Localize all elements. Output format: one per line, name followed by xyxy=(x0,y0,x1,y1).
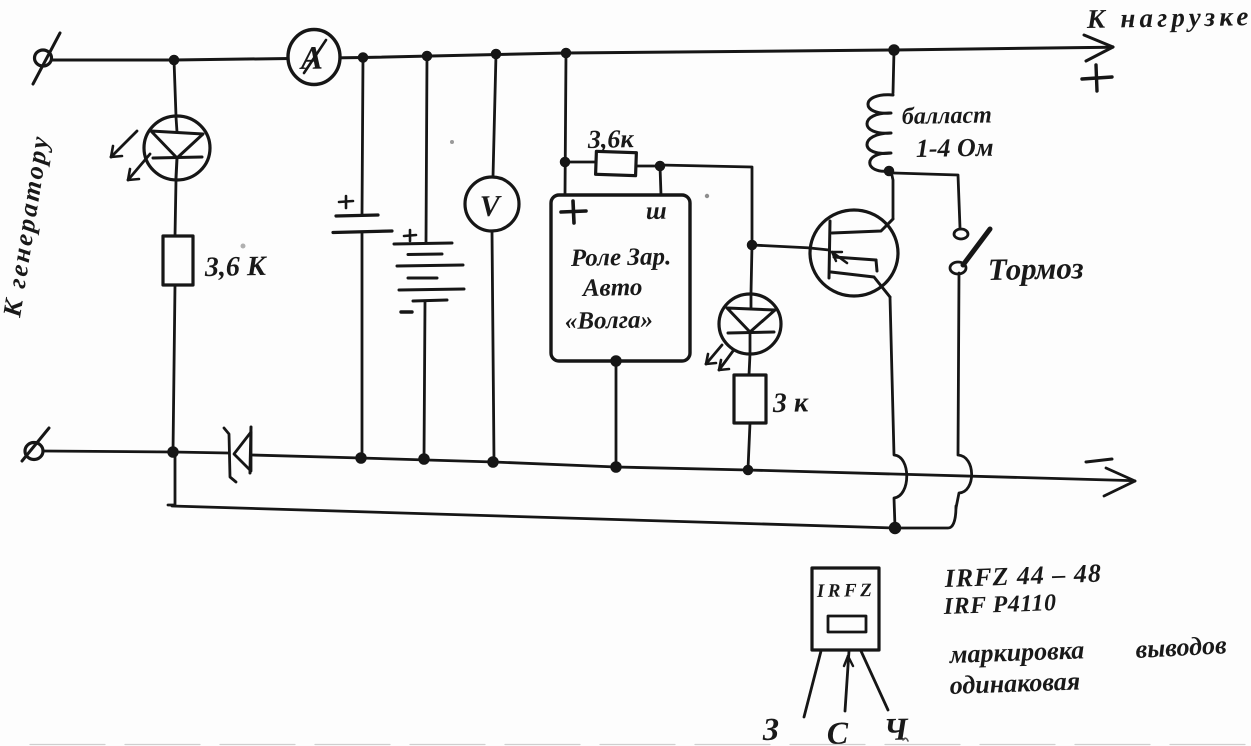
terminal bottom-left input xyxy=(22,428,49,461)
wire LED to resistor xyxy=(175,180,176,236)
label Ч leg xyxy=(883,711,909,746)
label балласт xyxy=(902,102,992,130)
label Авто xyxy=(581,274,643,302)
terminal top-left input xyxy=(33,33,60,84)
package legs xyxy=(804,651,888,717)
wire capacitor to bottom bus xyxy=(361,233,364,457)
transistor gate lead inside xyxy=(810,248,829,250)
label minus dash xyxy=(1086,459,1112,462)
svg-text:IRFZ 44 – 48: IRFZ 44 – 48 xyxy=(943,559,1102,594)
wire inductor to switch xyxy=(894,173,960,228)
label Роле Зар. xyxy=(570,243,672,272)
wire LED branch top xyxy=(174,60,176,116)
wire battery to bottom bus xyxy=(424,302,425,459)
label IRFZ on package xyxy=(816,580,876,602)
label 3к xyxy=(772,387,810,419)
wire gate node to LED2 xyxy=(751,245,752,293)
wire lower return line xyxy=(168,452,956,528)
wire resistor to Ш terminal xyxy=(660,166,661,195)
svg-text:балласт: балласт xyxy=(902,102,992,130)
wire top bus xyxy=(50,47,1110,60)
LED HL2 light arrows xyxy=(706,345,733,370)
label IRF P4110 xyxy=(942,590,1057,620)
svg-text:IRF P4110: IRF P4110 xyxy=(942,590,1057,620)
transistor gate arrow xyxy=(832,252,847,263)
label plus top right xyxy=(1082,65,1112,91)
wire voltmeter to bottom bus xyxy=(492,231,494,461)
voltmeter PV xyxy=(465,177,519,231)
svg-text:ш: ш xyxy=(646,198,667,225)
LED HL1 xyxy=(144,116,210,180)
paper speck 3 xyxy=(241,244,246,249)
svg-text:выводов: выводов xyxy=(1135,630,1228,664)
wire bottom bus right xyxy=(252,455,1132,481)
svg-text:3,6 К: 3,6 К xyxy=(204,251,269,283)
label 3,6 К xyxy=(204,251,269,283)
wire LED2 to resistor 3к xyxy=(749,354,750,375)
label Ш on relay xyxy=(646,198,667,225)
svg-text:Роле Зар.: Роле Зар. xyxy=(570,243,672,272)
LED HL2 xyxy=(719,294,781,354)
transistor drain finger xyxy=(832,219,893,233)
svg-text:1-4 Ом: 1-4 Ом xyxy=(916,133,994,163)
wire relay plus terminal xyxy=(565,53,566,195)
IRFZ package body xyxy=(812,568,879,650)
label 1-4 Ом xyxy=(916,133,994,163)
svg-text:IRFZ: IRFZ xyxy=(816,580,876,602)
node arrow minus out xyxy=(1104,468,1135,496)
relay box Роле Зар. Авто Волга xyxy=(551,195,690,361)
battery GB plates xyxy=(394,230,464,312)
label С leg xyxy=(826,715,849,746)
package slot xyxy=(828,616,866,632)
paper speck 2 xyxy=(705,194,709,198)
resistor 3,6 К (left) xyxy=(163,236,193,285)
label Тормоз xyxy=(988,250,1084,287)
label одинаковая xyxy=(949,666,1080,700)
svg-text:3 к: 3 к xyxy=(772,387,810,419)
paper speck 1 xyxy=(450,140,454,144)
battery GB wire top xyxy=(426,56,427,243)
svg-text:одинаковая: одинаковая xyxy=(949,666,1080,700)
svg-text:3,6к: 3,6к xyxy=(587,124,635,154)
transistor middle finger xyxy=(834,257,877,271)
wire bottom bus left xyxy=(43,451,228,453)
label plus on relay xyxy=(561,201,586,223)
LED HL1 light arrows xyxy=(111,131,150,180)
wire source down with hop xyxy=(890,297,907,527)
svg-text:К генератору: К генератору xyxy=(0,132,55,320)
svg-text:Ч: Ч xyxy=(883,711,909,746)
capacitor C branch wire xyxy=(362,58,363,216)
svg-text:маркировка: маркировка xyxy=(948,635,1085,669)
label К нагрузке xyxy=(1086,1,1251,34)
svg-text:К нагрузке: К нагрузке xyxy=(1086,1,1251,34)
wire gate horizontal xyxy=(752,245,812,248)
junction dots middle xyxy=(561,158,894,367)
transistor gate bar xyxy=(829,221,830,278)
wire switch down with hop xyxy=(956,273,972,508)
junction dots top bus xyxy=(170,45,900,65)
wire gate feed xyxy=(660,165,752,245)
resistor 3,6к horizontal xyxy=(569,151,659,175)
wire relay bottom lead xyxy=(615,361,618,466)
wire resistor 3к to bottom bus xyxy=(748,423,750,469)
label 3,6к xyxy=(587,124,635,154)
wire drain to inductor xyxy=(891,171,893,218)
ammeter PA xyxy=(288,30,340,85)
svg-text:V: V xyxy=(480,190,504,223)
capacitor C plates xyxy=(333,196,392,233)
inductor L балласт xyxy=(867,50,894,171)
label К генератору rotated xyxy=(0,132,55,320)
resistor 3к xyxy=(734,375,766,423)
label Волга xyxy=(565,306,654,335)
diode VD on bottom bus xyxy=(224,427,251,482)
voltmeter PV wire top xyxy=(493,54,496,177)
label IRFZ 44-48 xyxy=(943,559,1102,594)
svg-text:Тормоз: Тормоз xyxy=(988,250,1084,287)
label З leg xyxy=(761,711,779,746)
switch Тормоз xyxy=(950,229,990,274)
svg-text:С: С xyxy=(826,715,849,746)
transistor VT MOSFET circle xyxy=(810,210,898,296)
node A: arrow to load (К нагрузке) xyxy=(1084,35,1113,61)
transistor source finger xyxy=(831,272,890,297)
junction dots bottom bus xyxy=(168,447,901,534)
scan edge bottom xyxy=(30,738,1251,744)
svg-text:З: З xyxy=(761,711,779,746)
label маркировка выводов xyxy=(948,630,1227,669)
svg-text:Авто: Авто xyxy=(581,274,643,302)
wire resistor to bottom bus xyxy=(173,285,175,452)
svg-text:«Волга»: «Волга» xyxy=(565,306,654,335)
svg-text:А: А xyxy=(299,41,324,77)
